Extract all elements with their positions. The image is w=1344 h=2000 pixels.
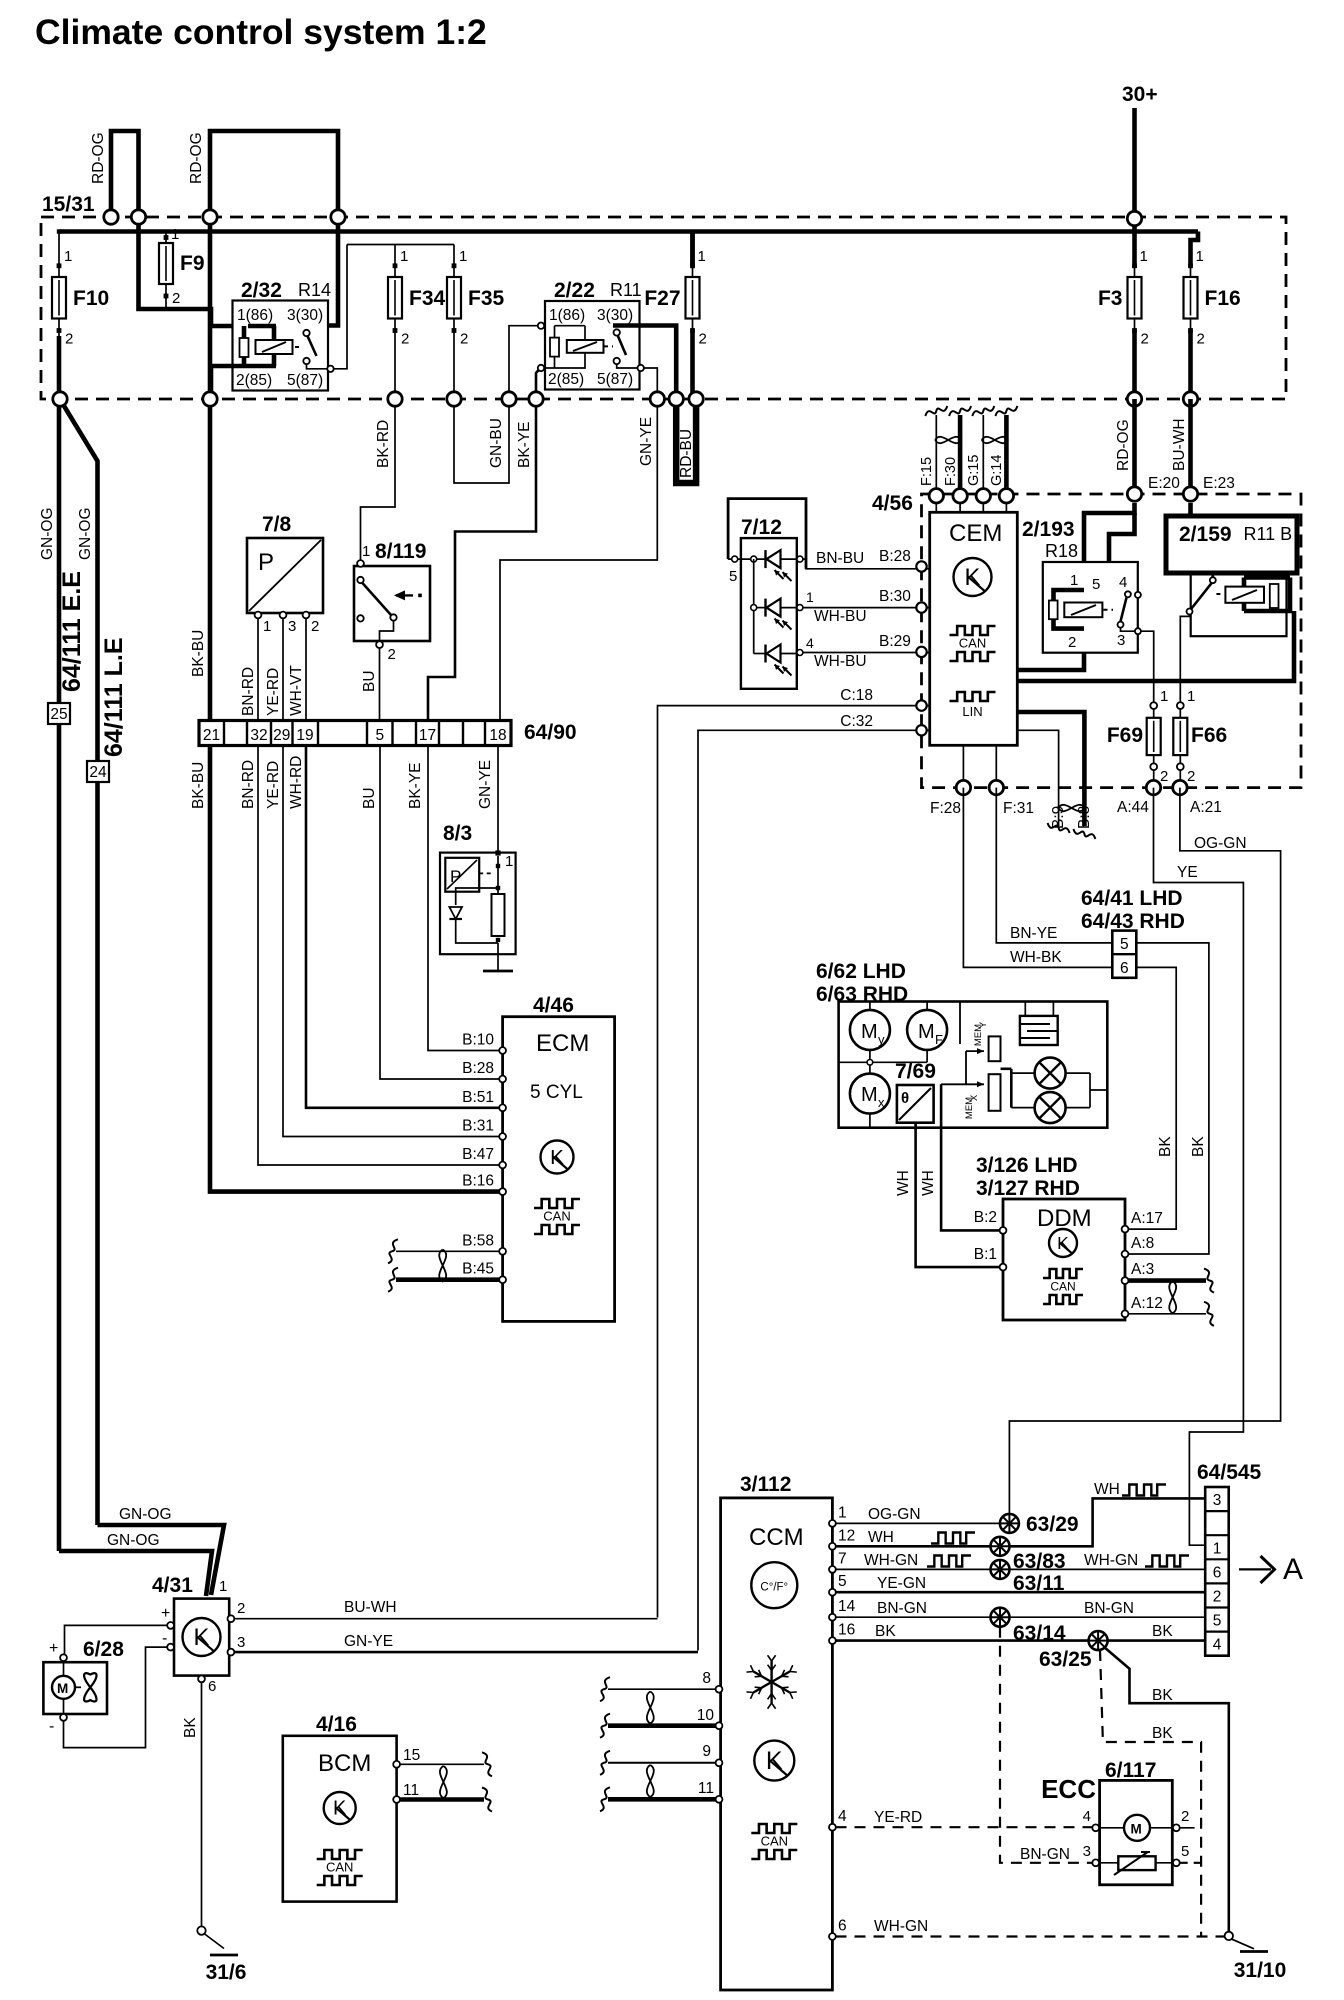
wire C18 to 4/31 BU-WH riser — [658, 706, 930, 1618]
wire RD-OG to CEM area — [1132, 399, 1137, 489]
ECM pins — [499, 1047, 506, 1054]
svg-text:BK-BU: BK-BU — [190, 762, 207, 809]
svg-text:BK: BK — [1152, 1687, 1173, 1704]
svg-text:F:30: F:30 — [943, 457, 959, 486]
ECC thermistor — [1118, 1856, 1155, 1870]
svg-text:1: 1 — [263, 618, 271, 635]
svg-text:WH: WH — [920, 1170, 937, 1196]
CCM temp symbol — [751, 1562, 797, 1608]
svg-text:GN-YE: GN-YE — [344, 1633, 393, 1650]
svg-text:RD-OG: RD-OG — [90, 132, 107, 184]
svg-text:-: - — [49, 1718, 54, 1735]
twist — [647, 1692, 654, 1724]
svg-text:F66: F66 — [1191, 724, 1227, 747]
svg-text:5 CYL: 5 CYL — [530, 1082, 583, 1103]
ECC motor — [1124, 1815, 1150, 1841]
twist — [935, 437, 961, 443]
svg-text:31/6: 31/6 — [206, 1961, 247, 1984]
wire F34 drop — [394, 245, 396, 267]
wire coil feed 2/32 — [139, 217, 249, 326]
relay 2/32 switch — [303, 330, 309, 336]
wire WH row — [836, 1545, 992, 1548]
lamps — [1010, 1069, 1013, 1108]
svg-text:4: 4 — [1213, 1637, 1222, 1654]
LED — [764, 645, 766, 663]
lamp — [1035, 1058, 1066, 1089]
lamp — [1035, 1092, 1066, 1123]
svg-text:1: 1 — [698, 248, 706, 265]
fuse F16 — [1188, 263, 1193, 268]
wire RD-BU hairpin — [676, 399, 696, 483]
svg-text:B:58: B:58 — [462, 1232, 494, 1249]
svg-text:RD-OG: RD-OG — [1115, 419, 1132, 471]
svg-text:1: 1 — [806, 589, 814, 605]
svg-text:8: 8 — [702, 1670, 711, 1687]
svg-text:5: 5 — [1120, 936, 1129, 953]
svg-text:5(87): 5(87) — [287, 372, 323, 389]
svg-text:YE: YE — [1177, 864, 1198, 881]
svg-text:BN-RD: BN-RD — [240, 667, 257, 716]
svg-text:3/112: 3/112 — [740, 1473, 791, 1496]
svg-text:WH: WH — [895, 1170, 912, 1196]
svg-text:2: 2 — [388, 646, 396, 663]
wire E20 branch to CEM — [1017, 503, 1134, 670]
wire WH-GN row — [836, 1568, 992, 1570]
svg-text:3: 3 — [1117, 632, 1125, 649]
motor MF — [907, 1010, 947, 1050]
wire BK 64/41-6 to DDM A17 — [1128, 967, 1176, 1229]
svg-text:64/41 LHD: 64/41 LHD — [1081, 887, 1183, 910]
svg-text:2(85): 2(85) — [548, 371, 584, 388]
wire F27 feed — [690, 232, 695, 267]
svg-text:17: 17 — [419, 727, 436, 744]
svg-text:RD-OG: RD-OG — [188, 132, 205, 184]
relay 2/193 switch — [1125, 591, 1131, 597]
wire 2/159 out to F66 — [1180, 615, 1189, 701]
relay 2/159 switch — [1212, 573, 1215, 577]
8/3 diode branch — [456, 888, 498, 905]
svg-text:1: 1 — [1160, 688, 1168, 705]
svg-text:5: 5 — [375, 727, 384, 744]
svg-text:F:31: F:31 — [1003, 800, 1034, 817]
svg-text:4: 4 — [1119, 574, 1127, 591]
BCM pins — [393, 1761, 400, 1768]
svg-text:3: 3 — [1083, 1843, 1091, 1860]
twist — [647, 1765, 654, 1797]
DDM pins — [1000, 1227, 1007, 1234]
svg-text:BU: BU — [361, 787, 378, 809]
svg-text:GN-YE: GN-YE — [638, 417, 655, 466]
svg-text:BK-BU: BK-BU — [190, 630, 207, 677]
svg-text:3: 3 — [1213, 1492, 1222, 1509]
svg-text:CAN: CAN — [326, 1860, 353, 1875]
svg-text:F9: F9 — [180, 252, 205, 275]
svg-text:CCM: CCM — [749, 1524, 804, 1551]
relay 2/32 R14 box — [233, 301, 329, 391]
svg-text:1(86): 1(86) — [237, 307, 273, 324]
fuse F66 — [1179, 700, 1181, 706]
svg-text:2: 2 — [311, 618, 319, 635]
svg-text:C:32: C:32 — [840, 713, 873, 730]
svg-text:3/126 LHD: 3/126 LHD — [976, 1154, 1078, 1177]
fuse F3 — [1132, 266, 1137, 268]
wire OG-GN from A21 — [1009, 788, 1280, 1514]
svg-text:GN-OG: GN-OG — [77, 507, 94, 560]
svg-text:B:8: B:8 — [1076, 806, 1093, 829]
svg-text:WH-BU: WH-BU — [814, 608, 867, 625]
svg-text:P: P — [258, 549, 274, 576]
wire OG-GN row — [836, 1522, 1001, 1524]
wire bus corner to F16 — [1191, 232, 1199, 267]
wire ECM B58 twisted — [396, 1250, 499, 1252]
svg-text:BN-GN: BN-GN — [877, 1600, 927, 1617]
connector circles top rail — [104, 210, 118, 224]
svg-text:X: X — [969, 1094, 980, 1101]
wire 2/22 coil pin 1-86 — [509, 326, 541, 401]
heater element — [1020, 1016, 1058, 1045]
svg-text:BN-YE: BN-YE — [1010, 925, 1057, 942]
svg-text:BU: BU — [361, 670, 378, 692]
svg-text:F34: F34 — [409, 287, 446, 310]
svg-text:R11 B: R11 B — [1244, 524, 1293, 544]
svg-text:WH-GN: WH-GN — [864, 1552, 918, 1569]
svg-text:6: 6 — [1213, 1565, 1222, 1582]
assembly internal wires — [839, 1061, 928, 1063]
svg-text:29: 29 — [273, 727, 290, 744]
svg-text:3(30): 3(30) — [287, 307, 323, 324]
LIN symbol — [950, 692, 996, 701]
svg-text:B:45: B:45 — [462, 1261, 494, 1278]
CAN symbol — [950, 626, 996, 635]
svg-text:1: 1 — [171, 226, 179, 243]
svg-text:M: M — [1131, 1822, 1142, 1837]
4/31 pins — [167, 1622, 174, 1629]
connector 24 — [87, 761, 109, 782]
svg-text:2: 2 — [1197, 331, 1205, 348]
7/12 pin 5 — [728, 558, 765, 560]
svg-text:B:29: B:29 — [879, 633, 911, 650]
fuse F35 — [453, 245, 455, 266]
svg-text:C°/F°: C°/F° — [760, 1582, 788, 1594]
svg-text:3: 3 — [237, 1634, 245, 1651]
connector circles CEM boundary — [1127, 487, 1141, 501]
svg-text:Y: Y — [978, 1021, 989, 1028]
splice 63/14 — [991, 1608, 1010, 1627]
ground 31/6 — [197, 1926, 205, 1934]
wire WH-BU 1 to CEM — [781, 607, 799, 609]
svg-text:4: 4 — [838, 1808, 847, 1825]
wire F34 F35 feed line — [347, 244, 454, 246]
svg-text:BN-RD: BN-RD — [240, 760, 257, 809]
svg-text:7/69: 7/69 — [895, 1060, 936, 1083]
svg-text:2: 2 — [65, 331, 73, 348]
LED — [764, 550, 766, 568]
svg-text:ECC: ECC — [1041, 1774, 1096, 1804]
svg-text:CAN: CAN — [543, 1209, 570, 1224]
relay 2/159 coil — [1244, 575, 1290, 580]
dashed BN-GN 63/14 to ECC pin3 — [1000, 1627, 1093, 1863]
LED — [764, 599, 766, 617]
dashed WH-GN CCM6 to ground — [836, 1935, 1226, 1937]
svg-text:31/10: 31/10 — [1234, 1959, 1287, 1982]
svg-text:1(86): 1(86) — [549, 307, 585, 324]
wires B9 B8 twisted below — [1058, 788, 1060, 826]
wire 2/22 87 output GN-YE — [644, 368, 657, 399]
wire 2/32 87 output to F34 F35 feed — [334, 245, 348, 369]
svg-text:WH-GN: WH-GN — [1084, 1552, 1138, 1569]
svg-text:10: 10 — [697, 1707, 715, 1724]
svg-text:BK: BK — [1152, 1725, 1173, 1742]
fuse F10 — [58, 232, 60, 266]
CEM left pin circles — [916, 561, 926, 571]
svg-text:CAN: CAN — [1050, 1280, 1075, 1294]
svg-text:15/31: 15/31 — [42, 193, 95, 216]
svg-text:A:44: A:44 — [1117, 799, 1149, 816]
svg-text:G:15: G:15 — [966, 455, 982, 486]
twist — [1059, 805, 1085, 811]
wire WH-VT 7/8 — [305, 618, 307, 721]
svg-text:RD-BU: RD-BU — [678, 429, 695, 478]
svg-text:6: 6 — [208, 1678, 216, 1695]
fuse F69 — [1153, 700, 1155, 706]
svg-text:F: F — [935, 1032, 943, 1047]
svg-text:2/159: 2/159 — [1179, 523, 1232, 546]
CCM right pins — [829, 1520, 836, 1527]
svg-text:2: 2 — [1160, 768, 1168, 785]
svg-text:F16: F16 — [1205, 287, 1241, 310]
wires CEM top pin stubs — [935, 496, 937, 513]
arrow A — [1239, 1568, 1271, 1570]
wire YE-GN row — [836, 1591, 1206, 1594]
svg-text:6/28: 6/28 — [83, 1638, 124, 1661]
svg-text:LIN: LIN — [962, 704, 982, 719]
svg-text:WH-RD: WH-RD — [288, 756, 305, 809]
8/3 resistor — [492, 894, 505, 936]
svg-text:2: 2 — [237, 1600, 245, 1617]
wire BU 8/119 — [379, 648, 381, 721]
wire BCM 11 twisted — [400, 1797, 484, 1802]
svg-text:11: 11 — [698, 1780, 714, 1797]
splice 63/29 — [1000, 1514, 1019, 1533]
svg-text:A:17: A:17 — [1131, 1210, 1163, 1227]
svg-text:25: 25 — [50, 706, 67, 723]
wire RD-OG loop2 right leg to relay 2/32 contact — [307, 217, 338, 326]
dashed BK 63/25 to ECC box — [1100, 1650, 1201, 1936]
svg-text:2: 2 — [1181, 1808, 1189, 1825]
wire CEM B8 — [1017, 712, 1084, 788]
svg-text:5(87): 5(87) — [597, 371, 633, 388]
svg-text:B:2: B:2 — [974, 1209, 997, 1226]
wire RD-OG loop2 left leg to BK-BU — [208, 217, 213, 399]
svg-text:WH-VT: WH-VT — [288, 665, 305, 716]
svg-text:1: 1 — [459, 248, 467, 265]
wire BK 63/25 to ground 31/10 — [1104, 1647, 1229, 1932]
svg-text:BK: BK — [1157, 1136, 1174, 1157]
svg-text:B:30: B:30 — [879, 588, 911, 605]
wire RD-OG loop 1 — [111, 131, 139, 217]
wire 2/159 to CEM — [1017, 611, 1294, 681]
wire WH-RD to ECM B51 — [306, 746, 500, 1108]
svg-text:9: 9 — [702, 1743, 711, 1760]
svg-text:1: 1 — [1070, 572, 1078, 589]
twist — [1169, 1281, 1176, 1313]
K symbol — [183, 1618, 221, 1656]
relay 2/22 coil — [554, 326, 556, 338]
wire BK to 64/545-4 — [1108, 1639, 1206, 1642]
svg-text:5: 5 — [1181, 1843, 1189, 1860]
wire BK-BU — [208, 399, 213, 721]
wire GN-OG right — [61, 401, 98, 1525]
svg-text:2: 2 — [460, 331, 468, 348]
splice 63/83 — [991, 1537, 1010, 1556]
svg-text:1: 1 — [1140, 248, 1148, 265]
ground 31/10 — [1225, 1932, 1233, 1940]
svg-text:7/12: 7/12 — [741, 516, 782, 539]
svg-text:21: 21 — [203, 727, 220, 744]
svg-text:+: + — [161, 1605, 170, 1622]
wire BK-YE from 2/22 — [428, 399, 536, 721]
svg-text:GN-OG: GN-OG — [107, 1532, 160, 1549]
wire WH-BU 4 to CEM — [781, 653, 799, 655]
svg-text:BK-YE: BK-YE — [407, 762, 424, 809]
motor My — [850, 1010, 890, 1050]
fuse F27 — [690, 232, 695, 266]
wire E23 stem — [1188, 503, 1193, 516]
wire WH theta right to DDM B2 — [941, 1084, 999, 1230]
wire YE from A44 — [1154, 788, 1244, 1546]
8/3 P switch — [445, 858, 479, 892]
svg-text:ECM: ECM — [536, 1030, 589, 1057]
relay 2/32 coil — [248, 324, 276, 329]
svg-text:R18: R18 — [1045, 541, 1078, 561]
svg-text:4: 4 — [1083, 1808, 1091, 1825]
svg-text:3/127 RHD: 3/127 RHD — [976, 1177, 1080, 1200]
svg-text:2/32: 2/32 — [241, 279, 282, 302]
svg-text:15: 15 — [403, 1747, 420, 1764]
power bus wire — [59, 229, 1198, 234]
svg-text:BU-WH: BU-WH — [1171, 418, 1188, 471]
svg-text:64/111 L.E: 64/111 L.E — [100, 637, 128, 757]
svg-text:BN-GN: BN-GN — [1084, 1600, 1134, 1617]
wire BK row — [836, 1639, 1090, 1642]
svg-text:1: 1 — [1213, 1541, 1222, 1558]
svg-text:2: 2 — [401, 331, 409, 348]
svg-text:WH-BK: WH-BK — [1010, 949, 1062, 966]
wire BN-GN row — [836, 1616, 992, 1618]
svg-text:BU-WH: BU-WH — [344, 1599, 397, 1616]
svg-text:1: 1 — [1196, 248, 1204, 265]
svg-text:K: K — [965, 564, 981, 591]
wire 2/193 out to F69 — [1141, 631, 1154, 700]
svg-text:K: K — [194, 1624, 210, 1651]
svg-text:F35: F35 — [468, 287, 505, 310]
wire DDM A3 twisted — [1128, 1278, 1206, 1283]
svg-text:B:9: B:9 — [1050, 806, 1067, 829]
svg-text:4/16: 4/16 — [316, 1713, 357, 1736]
svg-text:2: 2 — [1068, 634, 1076, 651]
svg-text:GN-BU: GN-BU — [488, 418, 505, 468]
svg-text:YE-RD: YE-RD — [265, 668, 282, 716]
wire F31 down — [995, 745, 997, 787]
svg-text:4/56: 4/56 — [872, 492, 913, 515]
wire E20 branch to relay 2/193 pin 5 — [1109, 513, 1135, 594]
wire BN-RD 7/8 — [257, 618, 259, 721]
wire DDM A12 twisted — [1128, 1313, 1206, 1315]
svg-text:θ: θ — [901, 1090, 909, 1107]
relay 2/159 label band — [1166, 516, 1297, 573]
svg-text:CAN: CAN — [761, 1834, 788, 1849]
svg-text:1: 1 — [362, 543, 370, 560]
wire F28 down — [962, 745, 964, 787]
K symbol — [541, 1141, 574, 1174]
8/3 sense line — [497, 856, 499, 894]
wire BU-WH — [234, 1618, 658, 1620]
wire BU-WH to CEM area — [1188, 399, 1193, 489]
svg-text:24: 24 — [89, 764, 107, 781]
svg-text:1: 1 — [64, 248, 72, 265]
svg-text:A:3: A:3 — [1131, 1261, 1154, 1278]
wire GN-OG to 4/31 pin1 a — [98, 1525, 225, 1595]
relay 2/22 switch — [614, 329, 620, 335]
svg-text:M: M — [861, 1084, 878, 1106]
svg-text:12: 12 — [838, 1527, 855, 1544]
wire 2/22 pin 2-85 to BK-YE — [536, 370, 539, 400]
svg-text:WH: WH — [1094, 1481, 1120, 1498]
svg-text:R14: R14 — [298, 280, 331, 300]
wire WH to 64/545-3 — [1010, 1498, 1206, 1546]
wire WH-GN to 64/545-6 — [1010, 1568, 1206, 1570]
wire 4/31 plus to 6/28 — [65, 1625, 168, 1654]
wire BK 64/41-5 to DDM A8 — [1128, 943, 1209, 1254]
CCM snowflake symbol — [770, 1661, 772, 1703]
svg-text:YE-RD: YE-RD — [265, 761, 282, 809]
svg-text:1: 1 — [838, 1504, 847, 1521]
connector circles bottom rail — [53, 392, 67, 406]
wire BN-BU 7/12 to CEM — [781, 558, 806, 560]
svg-text:6/117: 6/117 — [1105, 1759, 1156, 1782]
wire BN-RD to ECM B47 — [258, 746, 500, 1166]
svg-text:R11: R11 — [610, 280, 642, 300]
wire C32 to 4/31 GN-YE riser — [698, 730, 930, 1650]
svg-text:63/29: 63/29 — [1026, 1513, 1079, 1536]
svg-text:8/119: 8/119 — [375, 540, 426, 563]
svg-text:y: y — [878, 1032, 885, 1047]
svg-text:BK: BK — [1152, 1623, 1173, 1640]
svg-text:32: 32 — [250, 727, 267, 744]
svg-text:5: 5 — [1213, 1613, 1222, 1630]
svg-text:BN-GN: BN-GN — [1020, 1846, 1070, 1863]
svg-text:2: 2 — [1187, 768, 1195, 785]
splice 63/25 — [1089, 1631, 1108, 1650]
wire GN-YE — [500, 399, 657, 721]
svg-text:Climate control system 1:2: Climate control system 1:2 — [35, 12, 487, 52]
svg-text:6/62 LHD: 6/62 LHD — [816, 960, 906, 983]
svg-text:2/193: 2/193 — [1022, 518, 1075, 541]
svg-text:M: M — [861, 1021, 878, 1043]
switch 8/119 arrow — [396, 594, 413, 596]
wire RD-OG loop 2 — [210, 131, 338, 217]
svg-text:64/90: 64/90 — [524, 721, 577, 744]
wire BN-GN to 64/545-5 — [1010, 1616, 1206, 1618]
svg-text:5: 5 — [838, 1573, 847, 1590]
CAN symbol — [317, 1850, 363, 1859]
splice 63/11 — [991, 1560, 1010, 1579]
wire BN-YE F31 to 64/41 — [996, 788, 1112, 943]
svg-text:2: 2 — [699, 331, 707, 348]
wire BK-BU to ECM B16 — [210, 746, 500, 1192]
svg-text:CEM: CEM — [949, 520, 1002, 547]
svg-text:6: 6 — [1120, 960, 1129, 977]
